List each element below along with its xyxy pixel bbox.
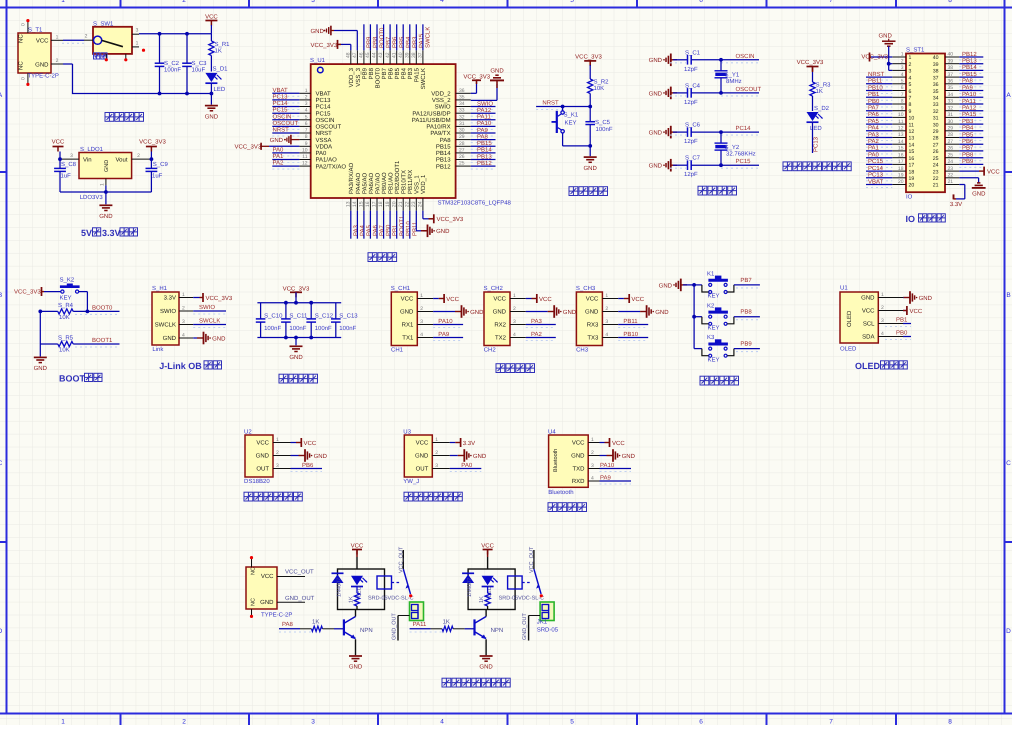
svg-text:34: 34 [948, 92, 954, 98]
caption 液位检测模块 [404, 492, 413, 501]
svg-text:10uF: 10uF [192, 67, 206, 74]
svg-text:VCC_3V3: VCC_3V3 [235, 143, 262, 150]
U1 left pin 2 PC13 [299, 99, 310, 101]
svg-text:PB7: PB7 [381, 67, 388, 79]
svg-text:PA9: PA9 [962, 84, 974, 91]
net label SWIO [471, 106, 496, 108]
svg-text:VCC: VCC [446, 296, 459, 303]
ST1 right pin 26 [945, 150, 959, 152]
svg-text:30: 30 [459, 128, 465, 134]
svg-text:20: 20 [909, 183, 915, 189]
svg-text:1: 1 [61, 0, 65, 4]
svg-text:PB0: PB0 [385, 224, 392, 236]
svg-text:SWIO: SWIO [199, 304, 215, 311]
svg-text:0: 0 [21, 23, 27, 26]
U1 top pin 44 BOOT0 [376, 50, 378, 64]
net label PB15 [959, 76, 983, 78]
svg-text:PA3: PA3 [352, 224, 359, 236]
svg-text:6: 6 [699, 719, 703, 726]
svg-text:C: C [1006, 460, 1011, 467]
svg-text:18: 18 [898, 166, 904, 172]
net label PA10 [600, 468, 632, 470]
svg-text:12pF: 12pF [684, 99, 698, 106]
svg-text:GND_OUT: GND_OUT [285, 595, 315, 602]
switch pin 1 [132, 46, 139, 48]
svg-text:VCC_OUT: VCC_OUT [529, 546, 535, 573]
svg-text:25: 25 [459, 161, 465, 167]
svg-text:PB1: PB1 [392, 224, 399, 236]
svg-text:3: 3 [513, 319, 516, 325]
svg-text:22: 22 [933, 176, 939, 182]
svg-text:VSS_3: VSS_3 [355, 67, 362, 86]
svg-text:100nF: 100nF [264, 325, 281, 332]
svg-text:C: C [0, 460, 3, 467]
ground GND LDO [105, 192, 107, 204]
svg-text:VDDA: VDDA [316, 144, 333, 151]
svg-text:24: 24 [948, 159, 954, 165]
switch bottom pins [105, 54, 107, 59]
caption 蓝牙模块 [548, 503, 557, 512]
filter top rail [257, 302, 341, 304]
svg-text:36: 36 [933, 82, 939, 88]
svg-text:PB1: PB1 [896, 316, 908, 323]
svg-text:BOOT1: BOOT1 [92, 337, 113, 344]
svg-text:KEY: KEY [60, 295, 72, 302]
svg-text:2: 2 [435, 450, 438, 456]
net label PB11 (vertical) [409, 211, 411, 239]
svg-text:IO: IO [906, 214, 916, 224]
svg-text:GND: GND [205, 113, 219, 120]
svg-text:44: 44 [372, 52, 378, 58]
svg-text:VCC_3V3: VCC_3V3 [206, 295, 233, 302]
svg-text:NPN: NPN [360, 627, 373, 634]
svg-text:PA12: PA12 [477, 107, 492, 114]
svg-text:JK1: JK1 [537, 619, 548, 626]
svg-text:3: 3 [420, 319, 423, 325]
net label PB9 (vertical) [363, 24, 365, 50]
net label PA4 (vertical) [356, 211, 358, 239]
svg-text:3.3V: 3.3V [950, 201, 962, 208]
net label PA9 [433, 337, 463, 339]
svg-text:3: 3 [276, 463, 279, 469]
U1 bottom pin 22 PB11/RX [409, 198, 411, 211]
svg-text:GND: GND [563, 309, 577, 316]
capacitor S_C7 12pF [673, 164, 688, 166]
net label PA9 [600, 480, 632, 482]
U1 left pin 9 VDDA [299, 145, 310, 147]
U1 bottom pin 18 PB0/AO [383, 198, 385, 211]
svg-text:KEY: KEY [708, 293, 720, 300]
svg-text:48: 48 [346, 52, 352, 58]
svg-text:1: 1 [276, 437, 279, 443]
U1 top pin 43 PB7 [383, 50, 385, 64]
svg-text:45: 45 [365, 52, 371, 58]
svg-text:PB15: PB15 [477, 140, 492, 147]
svg-text:10: 10 [302, 147, 308, 153]
svg-text:GND: GND [212, 335, 226, 342]
svg-text:TYPE-C-2P: TYPE-C-2P [261, 612, 292, 619]
svg-text:8MHz: 8MHz [726, 78, 742, 85]
net label PA0 [866, 157, 892, 159]
svg-text:1: 1 [605, 293, 608, 299]
net label PB1 [866, 96, 892, 98]
svg-text:GND: GND [256, 453, 270, 460]
svg-text:PB3: PB3 [407, 67, 414, 79]
svg-text:16: 16 [898, 152, 904, 158]
net label PB7 [959, 150, 983, 152]
capacitor S_C5 100nF [589, 107, 591, 122]
svg-text:SWCLK: SWCLK [199, 318, 220, 325]
svg-text:5V: 5V [81, 228, 92, 238]
svg-text:PA7/AO: PA7/AO [374, 172, 381, 194]
U1 top pin 45 PB8 [369, 50, 371, 64]
svg-text:PB5: PB5 [962, 131, 974, 138]
svg-text:PC14: PC14 [736, 125, 752, 132]
svg-text:S_R4: S_R4 [58, 302, 74, 309]
net label PA10 [959, 96, 983, 98]
net label PB10 (vertical) [402, 211, 404, 239]
svg-text:4: 4 [440, 0, 444, 4]
svg-text:RX1: RX1 [402, 322, 414, 329]
junction [158, 92, 162, 96]
svg-text:15: 15 [909, 149, 915, 155]
LDO pin 3 [60, 158, 79, 160]
svg-text:S_H1: S_H1 [152, 285, 168, 292]
svg-text:TYPE-C-2P: TYPE-C-2P [28, 73, 59, 80]
net label PB4 (vertical) [402, 24, 404, 50]
svg-text:S_CH2: S_CH2 [484, 285, 504, 292]
net label PB8 (vertical) [369, 24, 371, 50]
svg-text:13: 13 [909, 136, 915, 142]
svg-text:VCC: VCC [401, 296, 414, 303]
svg-text:Bluetooth: Bluetooth [548, 489, 573, 496]
U1 left pin 7 NRST [299, 132, 310, 134]
ST1 right pin 33 [945, 103, 959, 105]
svg-text:PA12: PA12 [962, 105, 977, 112]
svg-text:GND: GND [622, 453, 636, 460]
svg-text:D: D [1006, 628, 1011, 635]
svg-text:3: 3 [311, 719, 315, 726]
svg-text:1K: 1K [816, 88, 823, 95]
svg-text:VCC: VCC [539, 296, 552, 303]
svg-text:100nF: 100nF [164, 67, 181, 74]
svg-text:VCC_3V3: VCC_3V3 [861, 53, 888, 60]
svg-text:12pF: 12pF [684, 171, 698, 178]
net label PB6 (vertical) [389, 24, 391, 50]
svg-text:PB12: PB12 [477, 160, 492, 167]
U1 VSS_2 to GND earth [471, 99, 497, 101]
svg-text:GND: GND [649, 57, 663, 64]
S_CH3 VCC power [618, 298, 624, 300]
junction [294, 336, 298, 340]
capacitor S_C6 12pF [673, 131, 688, 133]
svg-text:S_C1: S_C1 [685, 49, 701, 56]
net label SWIO [193, 310, 226, 312]
svg-text:17: 17 [898, 159, 904, 165]
svg-text:4: 4 [305, 108, 308, 114]
svg-text:NC: NC [251, 567, 257, 575]
svg-text:GND: GND [571, 453, 585, 460]
svg-text:3: 3 [591, 463, 594, 469]
svg-text:GND: GND [289, 354, 303, 361]
svg-text:S_C7: S_C7 [685, 155, 701, 162]
svg-text:GND: GND [649, 90, 663, 97]
U1 right pin 35 VSS_2 [456, 99, 471, 101]
svg-text:18: 18 [378, 201, 384, 207]
junction [692, 315, 696, 319]
key trunk wire [693, 285, 695, 349]
svg-text:28: 28 [948, 132, 954, 138]
ST1 left pin 15 [892, 150, 906, 152]
net label PA11 [959, 103, 983, 105]
svg-text:PA11/USB/DM: PA11/USB/DM [412, 117, 451, 124]
net label BOOT0 (vertical) [376, 24, 378, 50]
svg-text:7: 7 [305, 128, 308, 134]
net label PA5 (vertical) [363, 211, 365, 239]
svg-text:4: 4 [909, 75, 912, 81]
S_CH3 GND power [618, 311, 640, 313]
svg-text:SWCLK: SWCLK [420, 68, 427, 89]
transistor NPN [473, 619, 475, 635]
capacitor S_C9 1uF [150, 157, 154, 161]
svg-text:GND: GND [490, 68, 504, 75]
svg-text:1: 1 [513, 293, 516, 299]
wire R4 to GND rail [40, 310, 58, 312]
net label PB5 (vertical) [396, 24, 398, 50]
relay switch blade [403, 569, 410, 594]
junction [284, 336, 288, 340]
svg-text:PA8: PA8 [962, 78, 974, 85]
svg-text:GND: GND [972, 191, 986, 198]
ST1 left pin 4 [892, 76, 906, 78]
svg-text:S_R3: S_R3 [816, 82, 832, 89]
junction [86, 310, 90, 314]
svg-text:S_Y2: S_Y2 [725, 144, 740, 151]
svg-text:40: 40 [948, 52, 954, 58]
H1 VCC_3V3 [193, 297, 199, 299]
net label PB15 [471, 145, 496, 147]
junction [294, 301, 298, 305]
svg-text:1: 1 [909, 55, 912, 61]
svg-text:S_D1: S_D1 [213, 66, 229, 73]
U2 GND power [291, 455, 299, 457]
net label PA4 [866, 130, 892, 132]
capacitor S_C12 100nF [310, 303, 312, 319]
svg-text:GND: GND [861, 295, 875, 302]
svg-text:PB12: PB12 [962, 51, 977, 58]
capacitor S_C10 100nF [260, 303, 262, 319]
net label PB10 [618, 337, 648, 339]
svg-text:28: 28 [933, 136, 939, 142]
switch circle terminal [94, 36, 102, 44]
svg-text:5: 5 [570, 0, 574, 4]
net label PC13 [866, 177, 892, 179]
U4 GND power [600, 455, 607, 457]
svg-text:SWCLK: SWCLK [425, 27, 432, 48]
svg-text:2: 2 [909, 62, 912, 68]
svg-text:SWCLK: SWCLK [155, 322, 176, 329]
svg-text:PA12/USB/DP: PA12/USB/DP [412, 110, 450, 117]
net label PC15 [866, 163, 892, 165]
screw terminal connector [540, 602, 554, 621]
svg-text:7: 7 [829, 0, 833, 4]
svg-text:PB3: PB3 [962, 118, 974, 125]
svg-text:VCC_3V3: VCC_3V3 [797, 59, 824, 66]
svg-text:41: 41 [391, 52, 397, 58]
net label PA6 (vertical) [369, 211, 371, 239]
caption 按键电路 [700, 376, 709, 385]
svg-text:S_C2: S_C2 [164, 60, 180, 67]
ST1 right pin 29 [945, 130, 959, 132]
svg-text:100nF: 100nF [315, 325, 332, 332]
net label PC15 [721, 164, 759, 166]
junction [38, 310, 42, 314]
junction [719, 58, 723, 62]
svg-text:TX3: TX3 [587, 335, 599, 342]
svg-text:PA11: PA11 [477, 114, 491, 121]
svg-text:14: 14 [352, 201, 358, 207]
svg-text:GND: GND [35, 62, 49, 69]
svg-text:1K: 1K [312, 619, 319, 626]
svg-text:A: A [1006, 92, 1011, 99]
svg-text:S_C13: S_C13 [339, 313, 358, 320]
svg-text:VCC: VCC [416, 440, 429, 447]
svg-text:3: 3 [70, 153, 73, 159]
junction [185, 32, 189, 36]
ST1 right pin 25 [945, 157, 959, 159]
svg-text:22: 22 [404, 201, 410, 207]
U1 right pin 29 PA8 [456, 139, 471, 141]
U1 bottom pin 16 PA6/AO [369, 198, 371, 211]
net label PB14 [471, 152, 496, 154]
svg-text:PB11: PB11 [868, 78, 883, 85]
U1 left pin 5 OSCIN [299, 119, 310, 121]
svg-text:24: 24 [418, 201, 424, 207]
svg-text:NC: NC [18, 61, 25, 70]
relay resistor 1K [485, 593, 490, 606]
svg-text:1: 1 [420, 293, 423, 299]
svg-text:U1: U1 [840, 285, 848, 292]
wire T1 GND down to bottom rail [63, 63, 73, 65]
svg-text:OUT: OUT [256, 466, 269, 473]
svg-text:1N4007: 1N4007 [337, 578, 343, 597]
relay coil box [377, 576, 392, 589]
svg-text:LDO3V3: LDO3V3 [80, 194, 104, 201]
svg-text:2: 2 [182, 306, 185, 312]
svg-text:12: 12 [909, 129, 915, 135]
svg-text:27: 27 [459, 147, 465, 153]
svg-text:RXD: RXD [572, 478, 585, 485]
svg-text:42: 42 [385, 52, 391, 58]
wire switch pin3 to VCC rail [139, 33, 211, 35]
svg-text:VBAT: VBAT [273, 87, 289, 94]
svg-text:CH2: CH2 [484, 347, 497, 354]
svg-text:10: 10 [898, 112, 904, 118]
svg-text:S_C11: S_C11 [289, 313, 308, 320]
svg-text:10K: 10K [594, 85, 605, 92]
svg-text:12pF: 12pF [684, 66, 698, 73]
svg-text:PC13: PC13 [868, 172, 884, 179]
svg-text:VCC_OUT: VCC_OUT [285, 569, 314, 576]
svg-text:1K: 1K [443, 619, 450, 626]
svg-text:VCC: VCC [862, 308, 875, 315]
no-connect dot S_T1 bottom [26, 83, 29, 86]
svg-text:1: 1 [305, 88, 308, 94]
svg-text:S_C5: S_C5 [595, 119, 611, 126]
svg-text:7: 7 [829, 719, 833, 726]
net label OSCOUT [721, 92, 759, 94]
svg-text:VCC_3V3: VCC_3V3 [139, 139, 166, 146]
svg-text:19: 19 [385, 201, 391, 207]
svg-text:PA3/RX/AO: PA3/RX/AO [348, 162, 355, 194]
svg-text:VCC: VCC [631, 296, 644, 303]
svg-text:PA5: PA5 [868, 118, 880, 125]
svg-text:PB11/RX: PB11/RX [407, 170, 414, 194]
net label PA2 [526, 337, 556, 339]
base resistor 1K [431, 628, 443, 630]
net label PA10 [471, 125, 496, 127]
svg-text:GND: GND [163, 335, 177, 342]
svg-text:2: 2 [591, 450, 594, 456]
svg-text:PB8: PB8 [372, 36, 379, 48]
svg-text:3: 3 [435, 463, 438, 469]
svg-text:PB5: PB5 [398, 36, 405, 48]
crystal S_Y2 32.768KHz [720, 132, 722, 143]
svg-text:GND: GND [585, 309, 599, 316]
svg-text:100nF: 100nF [289, 325, 306, 332]
svg-text:35: 35 [933, 89, 939, 95]
svg-text:PC15: PC15 [273, 107, 289, 114]
net label SWCLK [193, 324, 226, 326]
svg-text:VSS_1: VSS_1 [414, 175, 421, 194]
svg-text:24: 24 [933, 163, 939, 169]
svg-text:GND: GND [649, 130, 663, 137]
svg-text:PA8: PA8 [440, 137, 452, 144]
svg-text:23: 23 [411, 201, 417, 207]
resistor S_R3 1K [810, 82, 815, 96]
svg-text:SWIO: SWIO [160, 308, 176, 315]
resistor S_R1 1K [210, 34, 212, 41]
svg-text:PA6: PA6 [868, 111, 880, 118]
svg-text:PA8: PA8 [282, 621, 294, 628]
no-connect dot relay contact [540, 594, 543, 597]
svg-text:PB14: PB14 [436, 150, 451, 157]
svg-text:32: 32 [459, 114, 465, 120]
ST1 left pin 6 [892, 90, 906, 92]
net label VBAT [866, 184, 892, 186]
svg-text:VDD_3: VDD_3 [348, 67, 355, 87]
svg-text:NC: NC [251, 598, 257, 606]
svg-text:LED: LED [810, 125, 822, 132]
svg-text:S_R5: S_R5 [58, 335, 74, 342]
net label PA15 (vertical) [415, 24, 417, 50]
svg-text:PA0: PA0 [461, 462, 473, 469]
U1 top pin 46 PB9 [363, 50, 365, 64]
svg-text:GND: GND [584, 165, 598, 172]
caption 温度检测模块 [244, 492, 253, 501]
svg-text:46: 46 [359, 52, 365, 58]
svg-text:21: 21 [948, 179, 954, 185]
S_CH1 VCC power [433, 298, 439, 300]
svg-text:PB2/BOOT1: PB2/BOOT1 [394, 160, 401, 194]
svg-text:PB11: PB11 [623, 318, 638, 325]
svg-text:25: 25 [933, 156, 939, 162]
net label PA11 [410, 628, 431, 630]
svg-text:B: B [0, 292, 2, 299]
U1 top pin 48 VDD_3 [350, 50, 352, 64]
svg-text:PA9: PA9 [438, 331, 450, 338]
svg-text:33: 33 [459, 108, 465, 114]
